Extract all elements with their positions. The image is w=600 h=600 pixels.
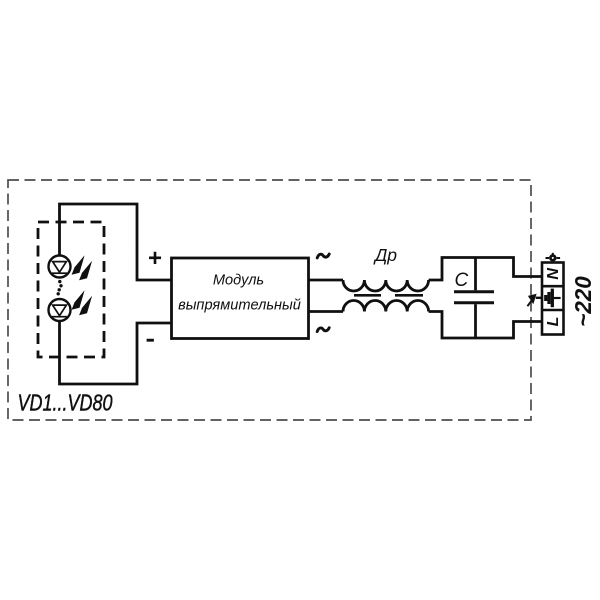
svg-text:Др: Др — [373, 245, 397, 265]
series dots between LEDs — [57, 280, 63, 296]
LED string dashed box — [38, 222, 104, 357]
light rays of VD1 — [72, 255, 93, 280]
luminaire enclosure dashed border — [8, 180, 531, 420]
svg-text:выпрямительный: выпрямительный — [178, 298, 301, 314]
wire module output bottom (~) — [309, 310, 344, 313]
svg-text:L: L — [545, 317, 562, 327]
wire choke top to top rail and N terminal — [429, 258, 542, 281]
choke L1 bottom winding — [343, 301, 429, 312]
rectifier module box — [172, 258, 309, 339]
choke L1 top winding — [343, 280, 429, 291]
label ~ bottom — [317, 328, 329, 332]
svg-text:VD1...VD80: VD1...VD80 — [18, 390, 113, 416]
svg-text:Модуль: Модуль — [213, 273, 264, 289]
svg-text:~220: ~220 — [570, 276, 596, 327]
svg-text:N: N — [545, 268, 562, 280]
screw terminal above block — [546, 253, 561, 263]
choke core lines — [354, 294, 423, 297]
wire minus path (LED bottom to module -) — [60, 321, 172, 384]
wire choke bottom to bottom rail and L terminal — [429, 312, 542, 339]
wire plus path (LED top to module +) — [60, 204, 172, 280]
wire module output top (~) — [309, 279, 344, 282]
label ~ top — [317, 254, 329, 258]
LED VD1 — [49, 256, 71, 278]
earth arrow — [527, 294, 536, 306]
earth wire stub — [536, 297, 542, 299]
label minus — [147, 339, 154, 342]
terminal block XS1 — [542, 263, 564, 335]
LED VD80 — [49, 299, 71, 321]
svg-text:+: + — [148, 245, 162, 272]
svg-text:C: C — [455, 270, 469, 291]
capacitor C1 — [454, 258, 494, 339]
earth pin symbol in middle cell — [546, 289, 561, 308]
light rays of VD80 — [72, 290, 93, 315]
